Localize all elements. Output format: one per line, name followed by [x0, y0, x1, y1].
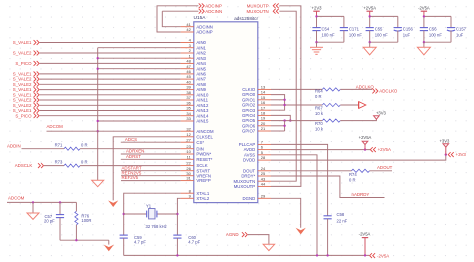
port S_PICO [15, 61, 39, 66]
junction C58 rail [326, 254, 328, 256]
svg-text:C157: C157 [456, 26, 467, 31]
svg-text:23: 23 [186, 144, 191, 149]
junction +2V5A bottom [369, 41, 371, 43]
svg-text:U15A: U15A [194, 15, 207, 21]
svg-text:-2V5A: -2V5A [418, 5, 430, 10]
wire MUXOUTN to pin 43 [271, 11, 296, 181]
port S_VALE1 [13, 40, 39, 45]
junction GPIO2 [283, 104, 285, 106]
wire GPIO6 stub [271, 125, 285, 127]
ground AGND triangle (ADCOM) [27, 213, 39, 219]
pin 37 AIN11 [181, 95, 209, 103]
svg-text:AIN14: AIN14 [196, 113, 209, 118]
pin 29 DGND [243, 193, 271, 201]
svg-text:10 k: 10 k [315, 111, 324, 116]
pin 19 GPIO5 [242, 116, 271, 124]
resistor R73 [64, 164, 80, 167]
wire GPIO5-7 vertical [284, 121, 286, 131]
pin 16 GPIO2 [242, 100, 271, 108]
pin 20 GPIO6 [242, 121, 271, 128]
pin 40 AIN8 [181, 79, 207, 87]
pin 21 GPIO7 [242, 126, 271, 134]
wire S_VALE1 to AIN0 [40, 42, 181, 44]
svg-text:1uF: 1uF [403, 33, 411, 38]
pin 45 AIN7 [181, 74, 207, 82]
svg-text:20 pF: 20 pF [44, 218, 55, 223]
port AGND [226, 232, 247, 237]
ground DGND arrow (CLKSEL) [108, 200, 118, 207]
svg-text:0 R: 0 R [349, 178, 356, 183]
pin 1 AIN3 [181, 53, 207, 61]
svg-text:ADOUT: ADOUT [377, 165, 393, 170]
wire AVSS to rail [271, 155, 317, 256]
svg-text:ADCOM: ADCOM [8, 196, 25, 201]
junction -2V5A rail [364, 254, 366, 256]
svg-text:MUXOUTN: MUXOUTN [246, 9, 268, 14]
svg-text:27: 27 [186, 137, 191, 142]
svg-text:DIN: DIN [196, 146, 203, 151]
svg-text:ADCINP: ADCINP [196, 30, 212, 35]
svg-text:R67: R67 [315, 105, 323, 110]
wire crystal right [157, 213, 177, 215]
capacitor C57 [56, 202, 64, 240]
capacitor C60 [173, 235, 181, 255]
capacitor C59 [120, 235, 128, 255]
junction +2V5A top [369, 15, 371, 17]
wire -2V5A gnd stem [423, 42, 425, 47]
wire S_VALE2 to AIN12 [40, 104, 181, 106]
svg-text:4.7 pF: 4.7 pF [188, 239, 200, 244]
wire S_VALE1 to AIN13 [40, 110, 181, 112]
wire R74 out [370, 170, 393, 172]
pin 13 CLKIO [242, 85, 271, 93]
power +3V3 (DVDD) [445, 147, 447, 155]
svg-text:R74: R74 [349, 172, 357, 177]
svg-text:100 nF: 100 nF [429, 33, 442, 38]
wire REFN2V5 [121, 175, 181, 177]
pin 48 AIN4 [181, 59, 207, 67]
wire DOUT to R74 [271, 170, 352, 172]
resistor R70 [322, 119, 340, 122]
wire AIN1 stub [98, 47, 181, 49]
wire ADCINN to pin 41 [162, 11, 180, 27]
capacitor C54 [312, 27, 320, 29]
IC U15A ads1258itcr body [194, 22, 258, 203]
pin 27 CS* [181, 137, 205, 145]
wire R70 to 3V3 [340, 119, 376, 121]
svg-text:ADRST: ADRST [126, 154, 141, 159]
junction C60 rail [176, 254, 178, 256]
pin 3 AIN1 [181, 43, 207, 51]
pin 25 DRDY* [241, 171, 271, 179]
svg-text:AGND: AGND [226, 232, 239, 237]
svg-text:ADCINN: ADCINN [205, 9, 222, 14]
pin 10 PWDN* [181, 149, 212, 157]
wire +2V5A bottom [370, 41, 398, 43]
wire +2V3 node [317, 15, 344, 17]
ground DGND arrow (pin 29) [296, 228, 306, 235]
svg-text:REF2V5: REF2V5 [122, 175, 139, 180]
junction ADCOM-ground stem [32, 201, 34, 203]
svg-text:37: 37 [186, 95, 191, 100]
svg-text:100 nF: 100 nF [375, 33, 388, 38]
port ADCLKO [372, 89, 398, 94]
svg-text:31: 31 [186, 176, 191, 181]
wire ADCS [121, 141, 181, 143]
wire GPIO7 stub [271, 130, 285, 132]
svg-text:12: 12 [186, 132, 191, 137]
power +3V3 (R70) [374, 116, 380, 119]
capacitor C56 [420, 27, 428, 29]
port S_PICO [15, 113, 39, 118]
wire S_VALE2 to AIN2 [40, 52, 181, 54]
svg-text:R70: R70 [315, 121, 323, 126]
pin 41 ADCINN [181, 22, 213, 30]
svg-text:28: 28 [261, 155, 266, 160]
port S_VALE2 [13, 103, 39, 108]
port S_VALE1 [13, 72, 39, 77]
port ADCINN [199, 9, 222, 14]
pin 12 CLKSEL [181, 132, 214, 140]
pin 36 AIN12 [181, 100, 209, 108]
wire +2V3 gnd stem [316, 42, 318, 47]
pin 23 DIN [181, 144, 204, 152]
svg-text:C156: C156 [403, 26, 414, 31]
port S_VALE1 [13, 92, 39, 97]
svg-text:CLKSEL: CLKSEL [196, 134, 213, 139]
svg-text:MUXOUTP: MUXOUTP [247, 4, 269, 9]
svg-text:10: 10 [186, 149, 191, 154]
capacitor C55 [366, 27, 374, 29]
svg-text:32 768 kHz: 32 768 kHz [146, 224, 167, 229]
junction +2V3 bottom [315, 41, 317, 43]
svg-text:ADDIN: ADDIN [7, 143, 21, 148]
port +3V3 [448, 152, 466, 157]
svg-text:DVDD: DVDD [243, 158, 255, 163]
wire GPIO0 jog [271, 95, 285, 111]
svg-text:MUXOUTP: MUXOUTP [234, 184, 256, 189]
pin 30 VREFN [181, 171, 211, 179]
svg-text:42: 42 [186, 27, 191, 32]
pin 24 DOUT [243, 166, 271, 174]
svg-text:C55: C55 [375, 26, 383, 31]
wire GPIO5 to R70 [271, 120, 322, 122]
wire S_VALE1 to AIN10 [40, 94, 181, 96]
svg-text:S_VALE2: S_VALE2 [13, 82, 32, 87]
crystal Y1 [147, 209, 157, 219]
wire S_VALE1 to AIN9 [40, 89, 181, 91]
wire REF2V5 [121, 180, 181, 182]
port +2V5A [370, 147, 391, 152]
svg-text:40: 40 [186, 79, 191, 84]
junction AIN15 [97, 120, 99, 122]
svg-text:0 R: 0 R [81, 143, 88, 148]
ground DGND arrow (RC) [104, 245, 114, 252]
port S_VALE1 [13, 87, 39, 92]
svg-text:34: 34 [186, 111, 191, 116]
svg-text:+3V3: +3V3 [439, 138, 450, 143]
wire CLKIO to R64 [271, 88, 322, 90]
pin 4 AIN0 [181, 38, 207, 46]
wire GPIO1 stub [271, 99, 285, 101]
wire R64 to port [340, 88, 372, 90]
svg-text:-2V5A: -2V5A [359, 232, 371, 237]
ground AGND triangle (-2V5A group) [417, 47, 430, 55]
junction GPIO4-GPIO5 [289, 119, 291, 121]
wire MUXOUTP to pin 44 [271, 6, 301, 187]
resistor R74 [352, 169, 370, 172]
wire GPIO4 jog [271, 115, 290, 120]
pin 34 AIN14 [181, 111, 209, 119]
wire AIN3 stub [98, 57, 181, 59]
pin 46 AIN6 [181, 69, 207, 77]
wire XTAL2 [177, 198, 180, 235]
pin 9 XTAL2 [181, 193, 210, 201]
pin 33 AIN15 [181, 116, 209, 124]
svg-text:ADCINN: ADCINN [196, 24, 212, 29]
ground earth (+2V3 group) [310, 46, 323, 48]
wire -2V5A rail [124, 254, 370, 256]
resistor R76 [75, 202, 78, 240]
resistor R67 [322, 103, 340, 106]
svg-text:100R: 100R [81, 218, 91, 223]
junction AIN3 [97, 57, 99, 59]
junction +2V3 top [315, 15, 317, 17]
wire DVDD [271, 155, 446, 161]
svg-text:+2V5A: +2V5A [363, 5, 376, 10]
pin 5 AVSS [244, 150, 271, 158]
svg-text:C54: C54 [322, 26, 330, 31]
pin 18 GPIO4 [242, 111, 271, 119]
pin 8 XTAL1 [181, 188, 210, 196]
wire AIN15 stub [98, 120, 181, 122]
port S_VALE2 [13, 82, 39, 87]
junction AINCOM [97, 130, 99, 132]
wire +2V5A gnd stem [369, 42, 371, 47]
svg-text:AIN4: AIN4 [196, 61, 206, 66]
junction crystal left [123, 213, 125, 215]
pin 26 START [181, 166, 211, 174]
wire XTAL1 [124, 193, 181, 235]
svg-text:29: 29 [261, 193, 266, 198]
svg-text:AVSS: AVSS [244, 152, 255, 157]
svg-text:10 k: 10 k [315, 127, 324, 132]
wire +2V3 bottom [317, 41, 344, 43]
wire ADCOM to AINCOM [47, 130, 181, 132]
pin 6 AVDD [244, 145, 271, 153]
port ADCINP [199, 3, 222, 8]
wire ADSTART [121, 170, 181, 172]
pin 31 VREFP [181, 176, 211, 184]
svg-text:-2V5A: -2V5A [377, 253, 389, 258]
wire S_VALE2 to AIN8 [40, 83, 181, 85]
svg-text:ADCINP: ADCINP [205, 4, 222, 9]
wire AGND port [248, 235, 269, 245]
capacitor C157 [447, 27, 455, 29]
junction DVDD port [445, 153, 447, 155]
junction crystal right [176, 213, 178, 215]
svg-text:0 R: 0 R [81, 159, 88, 164]
svg-text:ADCOM: ADCOM [47, 124, 64, 129]
resistor R71 [64, 147, 80, 150]
svg-text:+2V5A: +2V5A [378, 147, 391, 152]
svg-text:+3V3: +3V3 [376, 111, 387, 116]
svg-text:S_VALE1: S_VALE1 [13, 40, 32, 45]
pin 2 AIN2 [181, 48, 207, 56]
svg-text:32: 32 [186, 126, 191, 131]
svg-text:1uF: 1uF [456, 33, 464, 38]
junction AVDD power [364, 148, 366, 150]
svg-text:33: 33 [186, 116, 191, 121]
wire -2V5A node [424, 15, 451, 17]
wire -2V5A bottom [424, 41, 451, 43]
pin 47 AIN5 [181, 64, 207, 72]
junction GPIO6 [283, 125, 285, 127]
pin 43 MUXOUTN [233, 176, 271, 184]
svg-text:ads1258itcr: ads1258itcr [234, 16, 258, 21]
pin 42 ADCINP [181, 27, 213, 34]
svg-text:22 nF: 22 nF [337, 219, 348, 224]
svg-text:CS*: CS* [196, 140, 204, 145]
ground AGND triangle (+2V5A group) [363, 47, 376, 55]
wire S_VALE1 to AIN6 [40, 73, 181, 75]
svg-text:100 nF: 100 nF [349, 33, 362, 38]
wire ADCINP to pin 42 [157, 6, 198, 32]
svg-text:+3V3: +3V3 [456, 152, 467, 157]
wire ADCOM rail [7, 201, 76, 203]
junction -2V5A bottom [423, 41, 425, 43]
svg-text:AIN15: AIN15 [196, 119, 209, 124]
ground AGND triangle (unused inputs) [92, 180, 104, 186]
pin 44 MUXOUTP [234, 182, 271, 190]
pin 32 AINCOM [181, 126, 214, 134]
port MUXOUTP [247, 3, 279, 8]
wire R71 to DIN [80, 148, 181, 150]
svg-text:GPIO7: GPIO7 [242, 129, 256, 134]
wire CLKSEL to ground [113, 137, 180, 201]
wire ADRST [121, 158, 181, 160]
port -2V5A [370, 253, 390, 258]
svg-text:C56: C56 [429, 26, 437, 31]
svg-text:4.7 pF: 4.7 pF [134, 239, 146, 244]
wire +2V5A node [370, 15, 398, 17]
wire AVDD [271, 149, 370, 151]
pin 17 GPIO3 [242, 105, 271, 113]
wire to DGND arrow [108, 240, 110, 244]
junction R76 bottom [75, 239, 77, 241]
wire crystal left [124, 213, 147, 215]
wire ADDIN to R71 [22, 148, 65, 150]
wire ADSCLK to R73 [44, 165, 64, 167]
pin 22 SCLK [181, 161, 208, 169]
wire S_PICO to AIN14 [40, 115, 181, 117]
pin 14 GPIO0 [242, 90, 271, 98]
svg-text:44: 44 [261, 182, 266, 187]
svg-text:ADCS: ADCS [125, 137, 137, 142]
power +2V5A (AVDD) [364, 144, 366, 149]
port ADSCLK [15, 163, 44, 168]
svg-text:VREFP: VREFP [196, 178, 210, 183]
wire S_PICO to AIN4 [40, 62, 181, 64]
svg-text:PWDN*: PWDN* [196, 152, 211, 157]
wire DRDY to nADRDY [271, 176, 385, 198]
svg-text:+2V3: +2V3 [312, 5, 323, 10]
svg-text:ADSCLK: ADSCLK [15, 163, 33, 168]
port S_VALE2 [13, 98, 39, 103]
port S_VALE2 [13, 51, 39, 56]
ground AGND triangle (port) [263, 244, 275, 250]
pin 35 AIN13 [181, 106, 209, 114]
svg-text:R73: R73 [55, 159, 63, 164]
wire R73 to SCLK [80, 165, 181, 167]
svg-text:41: 41 [186, 22, 191, 27]
svg-text:48: 48 [186, 59, 191, 64]
svg-text:nADRDY: nADRDY [352, 192, 370, 197]
pin 7 PLLCAP [239, 140, 271, 148]
resistor R64 [322, 88, 340, 91]
svg-text:Y1: Y1 [146, 203, 152, 208]
pin 15 GPIO1 [242, 95, 271, 103]
svg-text:R64: R64 [315, 89, 323, 94]
capacitor C171 [340, 27, 348, 29]
svg-text:RESET*: RESET* [196, 157, 212, 162]
svg-text:XTAL2: XTAL2 [196, 196, 209, 201]
svg-text:C171: C171 [349, 26, 360, 31]
svg-text:ADRXEN: ADRXEN [126, 149, 144, 154]
wire RC bottom [60, 239, 109, 241]
svg-text:AIN1: AIN1 [196, 45, 206, 50]
wire GPIO2 to R67 [271, 104, 322, 106]
wire R67 out [340, 104, 358, 106]
wire AIN5 stub [98, 68, 181, 70]
junction GPIO5 [283, 119, 285, 121]
capacitor C58 [324, 216, 332, 256]
pin 11 RESET* [181, 154, 213, 162]
wire ADRXEN [121, 153, 181, 155]
junction GPIO1 [283, 99, 285, 101]
wire S_VALE2 to AIN11 [40, 99, 181, 101]
svg-text:0 R: 0 R [315, 94, 322, 99]
svg-text:AIN8: AIN8 [196, 82, 206, 87]
junction AVSS rail [316, 254, 318, 256]
svg-text:AINCOM: AINCOM [196, 129, 214, 134]
port MUXOUTN [246, 9, 278, 14]
junction C57 top [59, 201, 61, 203]
wire ground stem [32, 202, 34, 213]
capacitor C156 [394, 27, 402, 29]
svg-text:S_VALE2: S_VALE2 [13, 51, 32, 56]
svg-text:AIN11: AIN11 [196, 98, 208, 103]
svg-text:S_PICO: S_PICO [15, 61, 32, 66]
svg-text:+2V5A: +2V5A [359, 135, 372, 140]
svg-text:DGND: DGND [243, 196, 256, 201]
pin 39 AIN9 [181, 85, 207, 93]
svg-text:S_PICO: S_PICO [15, 113, 32, 118]
svg-text:ADCLKO: ADCLKO [379, 89, 398, 94]
svg-text:C58: C58 [337, 212, 345, 217]
port S_VALE1 [13, 108, 39, 113]
svg-text:R71: R71 [55, 143, 63, 148]
port arrow (GPIO net) [358, 102, 360, 109]
svg-text:ADCLKO: ADCLKO [356, 84, 375, 89]
wire S_VALE2 to AIN7 [40, 78, 181, 80]
svg-text:21: 21 [261, 126, 266, 131]
svg-text:S_VALE2: S_VALE2 [13, 98, 32, 103]
svg-text:100 nF: 100 nF [322, 33, 335, 38]
port S_VALE2 [13, 77, 39, 82]
junction -2V5A top [423, 15, 425, 17]
wire AGND tie vertical [97, 48, 99, 181]
